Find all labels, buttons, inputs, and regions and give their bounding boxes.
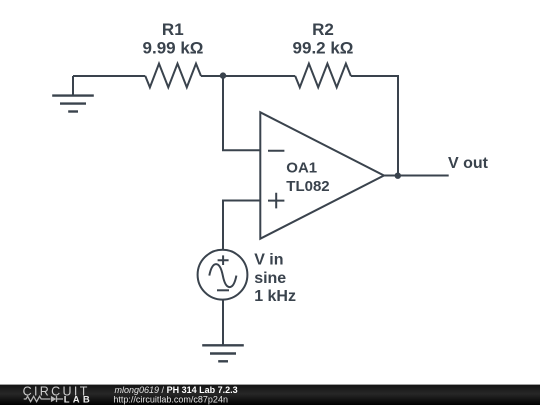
node A junction dot: [220, 72, 226, 78]
op-amp OA1: [260, 112, 384, 238]
CircuitLab logo: [23, 385, 93, 405]
wire from R1 to R2 through node: [201, 75, 295, 77]
svg-text:OA1: OA1: [286, 160, 317, 177]
ground GND2: [202, 345, 244, 361]
wire from source up to non-inverting input: [223, 201, 260, 250]
output node junction dot: [395, 173, 401, 179]
svg-text:sine: sine: [254, 270, 286, 287]
footer attribution text: [113, 385, 237, 404]
wire output to V out: [384, 175, 449, 177]
svg-text:R2: R2: [312, 20, 334, 39]
svg-text:http://circuitlab.com/c87p24n: http://circuitlab.com/c87p24n: [113, 394, 228, 404]
resistor R2: [293, 20, 354, 87]
resistor R1: [143, 20, 204, 87]
wire from R2 down to output node: [351, 76, 398, 176]
svg-text:V in: V in: [254, 251, 283, 268]
ground GND1: [52, 76, 94, 112]
footer bar: [0, 385, 540, 405]
wire from source to GND2: [222, 300, 224, 346]
svg-text:LAB: LAB: [64, 395, 93, 405]
svg-text:1 kHz: 1 kHz: [254, 288, 296, 305]
svg-text:99.2 kΩ: 99.2 kΩ: [293, 39, 354, 58]
wire from GND1 to R1: [73, 75, 145, 77]
svg-text:TL082: TL082: [286, 178, 329, 195]
wire from node A down to inverting input: [223, 76, 260, 150]
svg-text:9.99 kΩ: 9.99 kΩ: [143, 39, 204, 58]
svg-text:R1: R1: [162, 20, 184, 39]
voltage source V1 (V in): [198, 250, 296, 305]
svg-text:V out: V out: [448, 155, 489, 172]
